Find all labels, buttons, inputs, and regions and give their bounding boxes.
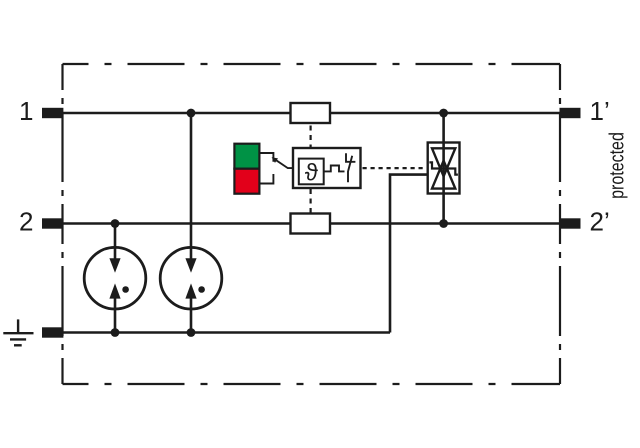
gas discharge tube F1 — [84, 247, 146, 309]
suppressor diode box U2 — [428, 143, 460, 194]
svg-text:2: 2 — [19, 207, 33, 237]
enclosure outline (dash-dot border) — [63, 64, 561, 384]
ground symbol — [3, 319, 33, 345]
wire gas tube GDT2 top lead — [190, 113, 193, 259]
resistor R2 (decoupling element line 2) — [291, 214, 331, 234]
gas discharge tube F2 — [160, 247, 222, 309]
terminal block ground — [42, 327, 63, 337]
contact to red field — [259, 174, 273, 184]
terminal block 1' — [560, 108, 581, 118]
disconnect switch symbol — [346, 153, 355, 162]
wire gas tube GDT2 bottom lead — [190, 298, 193, 333]
indicator green field — [234, 144, 259, 169]
resistor R1 (decoupling element line 1) — [291, 103, 331, 123]
temperature sensor box — [299, 159, 324, 185]
junction dot ground/GDT2 — [187, 328, 196, 337]
dashed link monitoring unit to R2 — [310, 189, 312, 214]
wire from ground bus up to suppressor box — [390, 175, 428, 333]
monitoring unit U1 (thermal disconnection device) — [293, 148, 361, 188]
wire gas tube GDT1 bottom lead — [114, 298, 117, 333]
changeover wiper of monitoring contact — [273, 158, 293, 168]
junction dot line2/suppressor — [439, 219, 448, 228]
suppressor zener bar — [429, 162, 458, 174]
dashed link R1 to monitoring unit — [310, 126, 312, 149]
terminal block 2 — [42, 218, 63, 228]
wire gas tube GDT1 top lead — [114, 224, 117, 260]
junction dot line1/suppressor — [439, 109, 448, 118]
junction dot ground/GDT1 — [111, 328, 120, 337]
wire line 2 (terminal 2 to 2') — [63, 222, 561, 225]
terminal block 2' — [560, 218, 581, 228]
svg-text:1: 1 — [19, 96, 33, 126]
suppressor diode triangles — [432, 148, 455, 176]
terminal block 1 — [42, 108, 63, 118]
trip characteristic pulse symbol — [324, 166, 345, 172]
svg-text:2’: 2’ — [590, 207, 610, 237]
svg-text:protected: protected — [606, 132, 628, 199]
svg-text:ϑ: ϑ — [305, 159, 318, 186]
wire ground bus — [63, 331, 390, 334]
dashed link monitoring unit to suppressor — [363, 167, 427, 169]
wire through suppressor (line1 to line2) — [442, 113, 445, 224]
wire line 1 (terminal 1 to 1') — [63, 112, 561, 115]
junction dot line1/GDT2 — [187, 109, 196, 118]
junction dot line2/GDT1 — [111, 219, 120, 228]
contact to green field — [259, 153, 273, 162]
svg-text:1’: 1’ — [590, 96, 610, 126]
indicator red field — [234, 169, 259, 194]
